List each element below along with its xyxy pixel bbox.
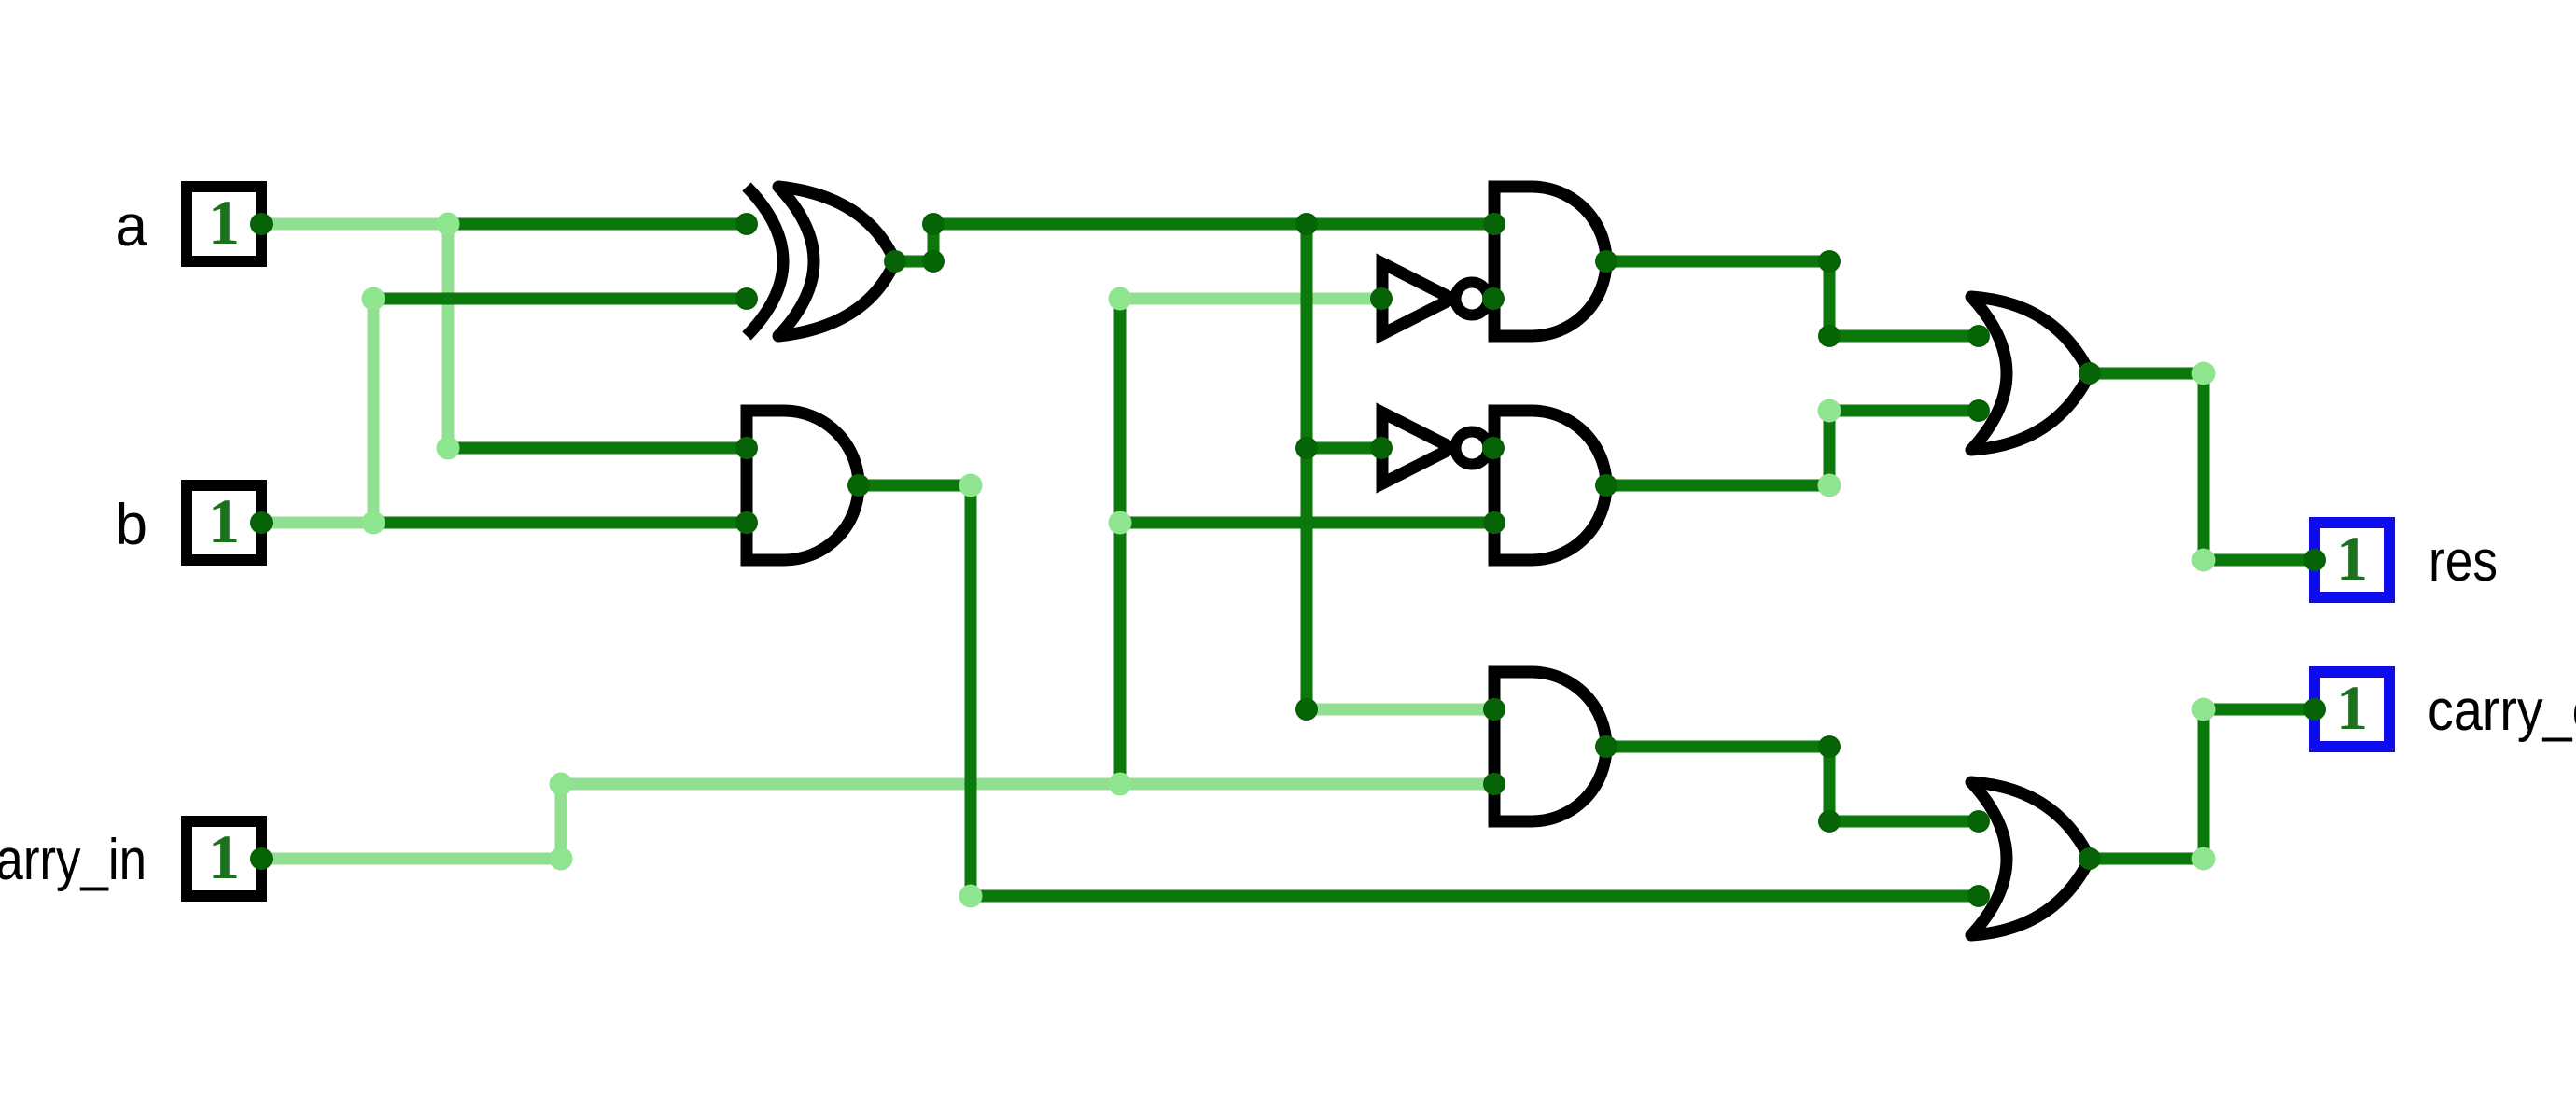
xor gate U1 body: [778, 187, 895, 336]
pin dot NOT2 out: [1482, 437, 1505, 459]
output carry_out box: [2315, 672, 2389, 747]
or gate U8 (res OR): [1971, 297, 2090, 450]
or gate U9 (carry OR): [1971, 782, 2090, 935]
corner dot and3 jog b: [1818, 399, 1841, 423]
junction dot a corner: [437, 437, 460, 460]
wire XOR output jog: [895, 224, 933, 261]
corner dot xor jog b: [922, 213, 945, 235]
pin dot AND2 in1: [1483, 213, 1505, 235]
wire xor-branch: to AND4 top input: [1307, 704, 1494, 716]
wire a to XOR input 1: [448, 218, 747, 231]
wire AND2 output jog to OR1 input 1: [1606, 261, 1979, 336]
port dot carry_out: [2303, 698, 2326, 721]
svg-text:1: 1: [2336, 672, 2368, 743]
pin dot OR1 in2: [1967, 399, 1990, 422]
pin dot OR2 in2: [1967, 885, 1990, 907]
input b box: [187, 485, 261, 560]
corner dot and2 jog a: [1818, 250, 1841, 273]
wire OR1 output to res: [2090, 373, 2314, 560]
and gate U2 (a AND b): [747, 411, 859, 560]
xor gate U1 (a XOR b) back arc: [747, 187, 783, 336]
and gate U4 (xor AND not-cin): [1494, 187, 1606, 336]
junction dot cin corner a: [550, 847, 573, 871]
corner dot and4 jog b: [1818, 810, 1841, 833]
wire carry_in branch: to NOT1 input: [1120, 293, 1381, 305]
corner dot and1 long run: [959, 885, 983, 908]
svg-text:carry_in: carry_in: [0, 828, 147, 892]
wire b: junction vertical up: [368, 299, 380, 523]
port dot a: [250, 213, 273, 235]
pin dot OR1 out: [2079, 362, 2101, 385]
pin dot AND1 in2: [735, 511, 758, 534]
wire b: port to junction: [264, 517, 373, 529]
pin dot AND2 out: [1595, 250, 1617, 273]
and gate U6 (not-xor AND cin): [1494, 411, 1606, 560]
pin dot NOT2 in: [1370, 437, 1393, 459]
svg-text:res: res: [2429, 529, 2498, 594]
wire AND1 output long horizontal to OR2 input 2: [971, 890, 1979, 903]
pin dot XOR in1: [735, 213, 758, 235]
pin dot AND1 out: [847, 474, 870, 497]
port dot res: [2303, 549, 2326, 571]
corner dot and1 out: [959, 474, 983, 497]
corner dot and4 jog a: [1818, 735, 1841, 758]
pin dot NOT1 out: [1482, 287, 1505, 310]
pin dot AND3 out: [1595, 474, 1617, 497]
not gate U3 (NOT carry_in) triangle: [1382, 263, 1452, 334]
junction dot a split: [437, 213, 460, 236]
junction dot cin riser mid: [1109, 511, 1132, 535]
wire a: junction vertical down: [442, 224, 455, 448]
pin dot AND4 out: [1595, 735, 1617, 758]
corner dot or1 out a: [2192, 362, 2216, 385]
wire a: port to junction: [264, 218, 448, 231]
junction dot cin riser top: [1109, 287, 1132, 311]
wire XOR branch to NOT2 input: [1307, 442, 1381, 455]
not gate U5 bubble: [1456, 432, 1489, 465]
wire AND1 output vertical x=1040: [965, 485, 977, 896]
wire XOR output bus to AND2 input 1: [933, 218, 1494, 231]
wire b to AND1 input 2: [373, 517, 747, 529]
wire a to AND1 input 1: [448, 442, 747, 455]
svg-text:1: 1: [208, 187, 240, 258]
pin dot AND1 in1: [735, 437, 758, 459]
svg-text:a: a: [116, 194, 148, 259]
pin dot AND3 in2: [1483, 511, 1505, 534]
and gate U7 (xor AND cin): [1494, 672, 1606, 821]
wire carry_in to AND3 input 2: [1120, 517, 1494, 529]
wire OR2 output to carry_out: [2090, 709, 2314, 859]
corner dot or2 out b: [2192, 698, 2216, 721]
input a box: [187, 187, 261, 261]
corner dot and2 jog b: [1818, 325, 1841, 347]
pin dot AND4 in2: [1483, 773, 1505, 795]
corner dot or1 out b: [2192, 549, 2216, 572]
svg-text:carry_out: carry_out: [2428, 679, 2576, 743]
junction dot b corner: [362, 287, 385, 311]
pin dot OR2 out: [2079, 847, 2101, 870]
pin dot XOR in2: [735, 287, 758, 310]
pin dot XOR out: [884, 250, 906, 273]
port dot b: [250, 511, 273, 534]
port dot carry_in: [250, 847, 273, 870]
junction dot b split: [362, 511, 385, 535]
svg-text:b: b: [116, 493, 147, 557]
corner dot xor jog a: [922, 250, 945, 273]
not gate U3 bubble: [1456, 283, 1489, 315]
junction dot cin corner b: [550, 773, 573, 796]
wire carry_in: vertical jog up: [555, 784, 567, 859]
corner dot and3 jog a: [1818, 474, 1841, 497]
svg-text:1: 1: [208, 821, 240, 892]
wire AND4 output jog to OR2 input 1: [1606, 747, 1979, 821]
junction dot x1400 top: [1295, 213, 1318, 235]
wire AND3 output jog to OR1 input 2: [1606, 411, 1979, 485]
pin dot NOT1 in: [1370, 287, 1393, 310]
not gate U5 (NOT xor) triangle: [1382, 413, 1452, 483]
pin dot OR2 in1: [1967, 810, 1990, 833]
pin dot AND4 in1: [1483, 698, 1505, 721]
wire carry_in: port right: [267, 853, 561, 865]
output res box: [2315, 523, 2389, 597]
wire carry_in: long horizontal to AND4: [561, 778, 1494, 791]
junction dot cin riser bottom: [1109, 773, 1132, 796]
junction dot x1400 mid: [1295, 437, 1318, 459]
svg-text:1: 1: [2336, 523, 2368, 594]
corner dot or2 out a: [2192, 847, 2216, 871]
pin dot OR1 in1: [1967, 325, 1990, 347]
input carry_in box: [187, 821, 261, 896]
wire carry_in vertical riser x=1200: [1114, 299, 1127, 784]
wire XOR branch vertical x=1400: [1301, 224, 1313, 709]
wire b to XOR input 2: [373, 293, 747, 305]
junction dot x1400 bottom: [1295, 698, 1318, 721]
wire AND1 output to corner: [859, 480, 971, 492]
svg-text:1: 1: [208, 485, 240, 556]
